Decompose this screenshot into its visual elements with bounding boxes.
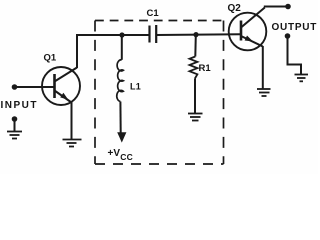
svg-text:R1: R1 [199, 63, 212, 74]
node junction L1 [119, 32, 124, 37]
svg-text:L1: L1 [130, 82, 141, 92]
ground (Q1 emitter) [63, 140, 82, 147]
svg-text:C1: C1 [147, 8, 160, 19]
inductor L1 [117, 35, 124, 133]
wire Q1 emitter to ground [71, 102, 73, 140]
wire top rail right [156, 33, 241, 36]
wire Q2 collector to output terminal [265, 7, 288, 8]
node input ground terminal [12, 116, 18, 122]
svg-text:OUTPUT: OUTPUT [272, 22, 318, 33]
node junction R1 [193, 32, 198, 37]
wire R1 to ground [194, 79, 196, 114]
transistor Q2 [229, 8, 267, 51]
wire Q2 emitter to ground [262, 46, 264, 89]
wire Q1 collector to top rail [76, 34, 78, 68]
svg-text:+V: +V [108, 148, 121, 159]
wire input ground stub [14, 119, 16, 132]
svg-text:Q1: Q1 [44, 53, 57, 64]
node input terminal [12, 84, 18, 90]
svg-text:CC: CC [120, 152, 133, 162]
+Vcc supply arrow [117, 132, 126, 142]
node output terminal [285, 4, 291, 10]
wire top rail left [76, 34, 150, 36]
ground (Q2 emitter) [257, 89, 271, 96]
ground (input) [7, 132, 22, 139]
label +VCC [108, 148, 133, 162]
ground (R1) [188, 114, 203, 121]
ground (output return) [295, 75, 309, 82]
wire input to Q1 base [15, 86, 55, 88]
wire output return to ground [288, 36, 302, 75]
resistor R1 [190, 35, 198, 79]
capacitor C1 [150, 25, 157, 43]
svg-text:INPUT: INPUT [1, 100, 39, 111]
svg-text:Q2: Q2 [228, 3, 242, 14]
node output return terminal [285, 33, 291, 39]
transistor Q1 [42, 67, 80, 105]
dashed network boundary box [95, 21, 224, 165]
